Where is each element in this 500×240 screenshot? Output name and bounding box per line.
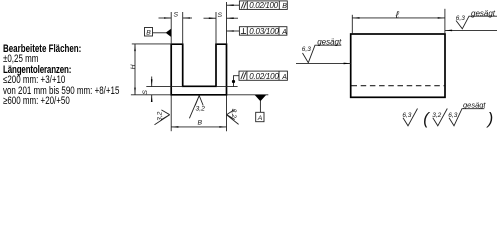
arrow B right: [219, 126, 226, 128]
roughness 3,2 left: [155, 110, 170, 125]
svg-text:S: S: [142, 90, 149, 95]
svg-text:A: A: [281, 74, 287, 81]
roughness 6,3 bottom group first: [403, 109, 418, 126]
svg-text:A: A: [257, 115, 263, 122]
svg-text:0.02/100: 0.02/100: [249, 1, 278, 10]
hidden groove line dashed: [352, 85, 445, 87]
svg-text:A: A: [281, 29, 287, 36]
svg-text:6,3: 6,3: [402, 112, 411, 119]
svg-text:B: B: [198, 120, 203, 127]
parallelism symbol frame3: [241, 72, 244, 79]
perpendicularity symbol frame2: [242, 28, 244, 33]
datum B leader: [153, 32, 167, 34]
leader frame3 dot: [232, 80, 235, 83]
arrow s floor up: [151, 95, 153, 102]
arrow H bottom: [134, 88, 136, 95]
roughness 3,2 bottom middle: [189, 96, 203, 119]
svg-text:S: S: [218, 12, 223, 19]
extension line right wall inner top: [215, 12, 217, 44]
svg-text:3,2: 3,2: [230, 109, 237, 119]
svg-text:H: H: [130, 64, 137, 69]
floor extension left: [146, 86, 182, 88]
leader frame2: [227, 30, 240, 32]
roughness 3,2 bottom group second: [433, 109, 448, 126]
svg-text:3,2: 3,2: [196, 105, 206, 112]
bottom extension right to datum A: [227, 94, 269, 96]
B dimension line: [171, 126, 226, 128]
arrow S-left right-pointing: [164, 17, 171, 19]
arrow L left: [352, 17, 359, 19]
L extension right: [444, 9, 446, 33]
svg-text:0.02/100: 0.02/100: [249, 72, 279, 81]
svg-text:3,2: 3,2: [157, 111, 164, 121]
tolerance frame1 box: [239, 1, 287, 10]
L extension left: [351, 15, 353, 33]
floor extension right: [216, 86, 238, 88]
L dimension line: [352, 17, 445, 19]
note text block left: [3, 44, 119, 107]
bottom extension left: [131, 94, 171, 96]
arrow S-right left-pointing: [227, 17, 234, 19]
svg-text:B: B: [146, 30, 151, 37]
datum B triangle: [166, 29, 172, 37]
arrow s floor down: [151, 79, 153, 86]
arrow H top: [134, 44, 136, 51]
svg-text:S: S: [174, 12, 179, 19]
leader 6,3 top right: [445, 29, 497, 31]
svg-text:6,3: 6,3: [456, 15, 465, 22]
H dimension line: [134, 44, 136, 95]
B extension right: [226, 96, 228, 132]
svg-text:(: (: [423, 110, 430, 128]
arrow S-right right-pointing: [209, 17, 216, 19]
arrow B left: [171, 126, 178, 128]
arrow L right: [438, 17, 445, 19]
dimension S left wall shafts: [159, 17, 172, 19]
arrow leader 6,3 top right: [445, 30, 452, 32]
tolerance frame2 box: [239, 27, 287, 36]
leader gesägt left: [296, 62, 351, 64]
arrow leader gesägt left: [344, 63, 351, 65]
U-profile outline: [171, 44, 226, 95]
svg-text:6,3: 6,3: [448, 112, 457, 119]
leader frame1: [227, 4, 240, 6]
arrow leader frame1: [227, 4, 234, 6]
datum A leader: [259, 101, 261, 112]
roughness check top right: [456, 16, 497, 29]
dimension s floor shafts: [151, 77, 153, 87]
dimension S right wall shafts: [204, 17, 217, 19]
bar outline: [351, 34, 445, 97]
parallelism symbol frame1: [241, 2, 244, 8]
leader frame3: [234, 76, 240, 87]
datum A box: [256, 112, 264, 121]
datum A triangle: [255, 95, 267, 101]
svg-text:3,2: 3,2: [432, 112, 441, 119]
svg-text:ℓ: ℓ: [395, 10, 400, 21]
extension line left wall inner top: [182, 12, 184, 44]
roughness check left: [303, 45, 342, 63]
roughness 6,3 gesägt bottom group third: [449, 109, 484, 126]
arrow leader frame2: [227, 30, 234, 32]
extension line right wall outer top: [226, 2, 228, 44]
extension line left wall outer top: [170, 12, 172, 44]
roughness 3,2 right: [227, 109, 239, 124]
svg-text:gesägt: gesägt: [463, 101, 486, 110]
B extension left: [170, 96, 172, 132]
svg-text:0.03/100: 0.03/100: [249, 27, 279, 36]
svg-text:6,3: 6,3: [302, 46, 311, 53]
svg-text:gesägt: gesägt: [471, 9, 496, 18]
arrow S-left left-pointing: [183, 17, 190, 19]
svg-text:gesägt: gesägt: [317, 37, 342, 46]
H top extension: [132, 43, 171, 45]
datum B box: [145, 28, 153, 37]
tolerance frame3 box: [239, 71, 287, 80]
svg-text:): ): [486, 110, 494, 128]
svg-text:B: B: [282, 3, 287, 10]
